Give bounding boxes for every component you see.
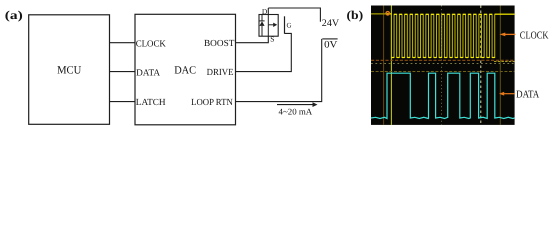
- trigger level line (dim): [383, 6, 385, 125]
- ch1 baseline dashed line (dim olive): [371, 71, 515, 73]
- wire drain to 24V supply: [268, 8, 320, 22]
- 0V rail terminal bar: [322, 38, 337, 40]
- svg-text:S: S: [270, 34, 274, 43]
- oscilloscope screen background: [371, 6, 515, 125]
- gate electrode bar: [284, 16, 286, 33]
- wire BOOST to MOSFET source: [236, 36, 269, 43]
- CLOCK trace (yellow square wave body): [371, 14, 515, 58]
- svg-text:LATCH: LATCH: [136, 98, 166, 108]
- wire DRIVE to gate: [236, 33, 292, 71]
- channel arrow inside Q1: [268, 24, 274, 26]
- svg-text:DATA: DATA: [136, 69, 160, 79]
- scope center vertical gridline: [441, 6, 443, 125]
- svg-text:(b): (b): [347, 8, 364, 22]
- svg-text:0V: 0V: [324, 40, 338, 51]
- right edge yellow marker segment: [494, 61, 515, 63]
- CLOCK pointer arrow: [505, 33, 516, 35]
- cursor line (dashed): [480, 6, 482, 125]
- scope center horizontal gridline: [371, 63, 515, 65]
- wire CLOCK (MCU to DAC): [110, 42, 136, 44]
- drain lead wire D: [267, 8, 269, 15]
- DATA trace (cyan waveform): [371, 73, 515, 118]
- CLOCK trace leading high segment (dim): [371, 13, 386, 15]
- wire LOOP RTN to 0V rail: [236, 39, 322, 102]
- svg-text:D: D: [262, 7, 268, 16]
- wire LATCH (MCU to DAC): [110, 101, 136, 103]
- body diode of Q1: [259, 15, 264, 37]
- svg-text:BOOST: BOOST: [204, 39, 235, 49]
- svg-text:(a): (a): [5, 8, 23, 22]
- MOSFET Q1 package box: [259, 15, 278, 37]
- wire DATA (MCU to DAC): [110, 71, 136, 73]
- loop current arrow: [277, 104, 314, 106]
- trigger point marker: [386, 12, 389, 15]
- svg-text:4~20 mA: 4~20 mA: [279, 106, 313, 116]
- svg-text:LOOP RTN: LOOP RTN: [191, 98, 233, 108]
- svg-text:DRIVE: DRIVE: [207, 68, 234, 78]
- DAC block U2: [135, 14, 236, 125]
- DATA pointer arrow: [504, 93, 515, 95]
- svg-text:MCU: MCU: [57, 65, 81, 77]
- trigger level dashed line: [371, 59, 515, 61]
- svg-text:DATA: DATA: [516, 89, 540, 100]
- CLOCK trace leading high segment (bright): [386, 13, 391, 15]
- trigger position line (bright): [390, 6, 392, 125]
- CLOCK trace bright pulse tops: [394, 13, 495, 15]
- svg-text:CLOCK: CLOCK: [136, 39, 166, 49]
- svg-text:DAC: DAC: [174, 65, 196, 77]
- svg-text:24V: 24V: [322, 18, 340, 29]
- svg-text:G: G: [287, 22, 292, 30]
- CLOCK trace trailing high segment: [495, 13, 515, 15]
- svg-text:CLOCK: CLOCK: [520, 31, 549, 42]
- dim grid vertical line right: [499, 6, 501, 125]
- CLOCK trace bright pulse bottoms: [391, 57, 494, 59]
- MCU block U1: [29, 15, 110, 125]
